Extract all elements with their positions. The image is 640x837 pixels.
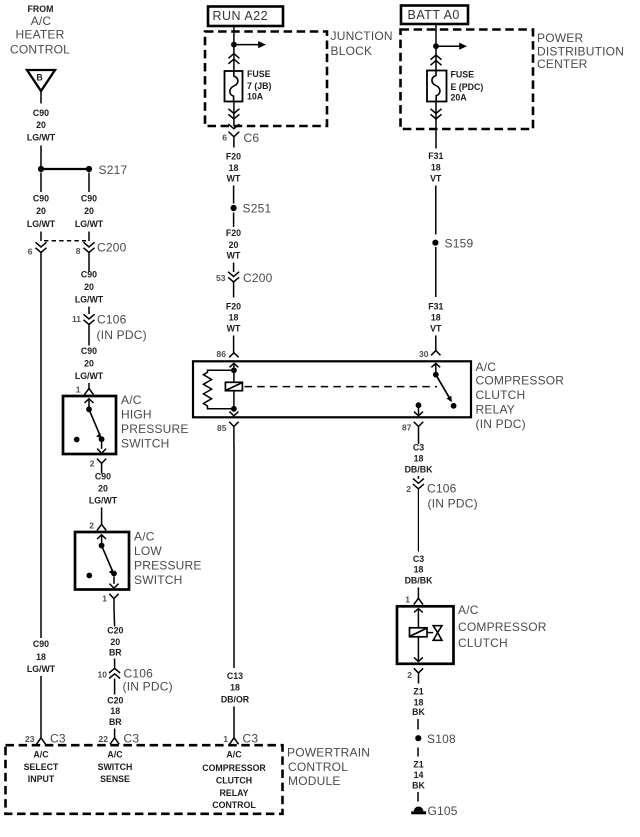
svg-text:SWITCH: SWITCH <box>134 573 183 587</box>
svg-text:10: 10 <box>98 670 108 680</box>
svg-text:F20: F20 <box>226 302 241 312</box>
svg-text:CONTROL: CONTROL <box>10 43 70 57</box>
svg-text:FUSE: FUSE <box>451 70 475 80</box>
svg-text:A/C: A/C <box>121 393 142 407</box>
svg-text:A/C: A/C <box>107 750 123 760</box>
svg-text:S108: S108 <box>427 732 456 746</box>
svg-text:87: 87 <box>402 423 412 433</box>
svg-text:6: 6 <box>28 247 33 257</box>
svg-text:PRESSURE: PRESSURE <box>121 422 189 436</box>
svg-text:POWER: POWER <box>537 31 583 45</box>
svg-text:1: 1 <box>76 385 81 395</box>
svg-text:JUNCTION: JUNCTION <box>331 29 393 43</box>
svg-text:BATT A0: BATT A0 <box>408 8 460 22</box>
svg-text:18: 18 <box>431 163 441 173</box>
svg-text:A/C: A/C <box>226 750 242 760</box>
svg-text:FUSE: FUSE <box>247 69 271 79</box>
svg-text:G105: G105 <box>428 804 458 818</box>
svg-text:C90: C90 <box>95 472 111 482</box>
svg-text:COMPRESSOR: COMPRESSOR <box>476 374 565 388</box>
svg-text:WT: WT <box>227 251 241 261</box>
svg-text:8: 8 <box>76 246 81 256</box>
svg-text:6: 6 <box>222 133 227 143</box>
svg-text:RELAY: RELAY <box>219 788 248 798</box>
svg-text:DB/BK: DB/BK <box>405 576 434 586</box>
svg-text:F31: F31 <box>428 302 443 312</box>
svg-text:18: 18 <box>230 683 240 693</box>
svg-text:(IN PDC): (IN PDC) <box>123 680 173 694</box>
svg-text:2: 2 <box>406 484 411 494</box>
svg-text:18: 18 <box>110 706 120 716</box>
svg-text:PRESSURE: PRESSURE <box>134 559 202 573</box>
svg-text:CONTROL: CONTROL <box>212 800 256 810</box>
svg-text:18: 18 <box>414 454 424 464</box>
svg-text:S159: S159 <box>445 236 474 250</box>
svg-text:COMPRESSOR: COMPRESSOR <box>458 620 547 634</box>
svg-text:20: 20 <box>36 120 46 130</box>
svg-text:(IN PDC): (IN PDC) <box>97 328 147 342</box>
svg-text:20: 20 <box>84 282 94 292</box>
svg-text:C90: C90 <box>81 270 97 280</box>
svg-text:A/C: A/C <box>458 603 479 617</box>
svg-text:LG/WT: LG/WT <box>75 295 104 305</box>
svg-text:INPUT: INPUT <box>28 774 55 784</box>
svg-text:E (PDC): E (PDC) <box>451 82 484 92</box>
svg-text:C13: C13 <box>227 671 243 681</box>
svg-text:10A: 10A <box>247 92 264 102</box>
svg-text:C106: C106 <box>427 482 457 496</box>
svg-text:BR: BR <box>109 648 122 658</box>
svg-text:C3: C3 <box>413 443 424 453</box>
svg-text:1: 1 <box>405 595 410 605</box>
svg-text:LG/WT: LG/WT <box>27 664 56 674</box>
svg-text:18: 18 <box>229 313 239 323</box>
svg-text:C3: C3 <box>50 732 66 746</box>
svg-text:LG/WT: LG/WT <box>75 371 104 381</box>
svg-text:CLUTCH: CLUTCH <box>458 636 508 650</box>
svg-text:C106: C106 <box>124 667 154 681</box>
svg-text:BK: BK <box>412 781 425 791</box>
svg-text:Z1: Z1 <box>413 760 423 770</box>
svg-text:LG/WT: LG/WT <box>27 219 56 229</box>
svg-text:7 (JB): 7 (JB) <box>247 81 272 91</box>
svg-text:SELECT: SELECT <box>24 762 59 772</box>
svg-text:C90: C90 <box>33 639 49 649</box>
svg-text:HIGH: HIGH <box>121 408 152 422</box>
svg-text:A/C: A/C <box>476 360 497 374</box>
svg-text:C90: C90 <box>33 194 49 204</box>
svg-text:85: 85 <box>217 423 227 433</box>
svg-text:B: B <box>36 73 42 83</box>
svg-text:S251: S251 <box>243 202 272 216</box>
svg-text:22: 22 <box>99 734 109 744</box>
svg-text:POWERTRAIN: POWERTRAIN <box>287 746 370 760</box>
svg-text:18: 18 <box>431 313 441 323</box>
svg-text:30: 30 <box>419 349 429 359</box>
svg-text:C106: C106 <box>97 313 127 327</box>
svg-text:11: 11 <box>72 314 81 324</box>
svg-text:C200: C200 <box>243 271 273 285</box>
svg-text:RELAY: RELAY <box>476 403 515 417</box>
svg-text:WT: WT <box>227 174 241 184</box>
svg-text:86: 86 <box>217 349 227 359</box>
svg-text:2: 2 <box>89 521 94 531</box>
svg-text:CONTROL: CONTROL <box>288 760 348 774</box>
svg-text:F20: F20 <box>226 152 241 162</box>
svg-text:20: 20 <box>36 206 46 216</box>
svg-text:DB/BK: DB/BK <box>405 465 434 475</box>
svg-text:14: 14 <box>414 770 424 780</box>
svg-text:C90: C90 <box>81 194 97 204</box>
svg-text:LG/WT: LG/WT <box>75 219 104 229</box>
svg-text:20: 20 <box>110 637 120 647</box>
svg-text:BR: BR <box>109 717 122 727</box>
svg-text:C200: C200 <box>97 241 127 255</box>
svg-text:CLUTCH: CLUTCH <box>216 776 252 786</box>
svg-text:Z1: Z1 <box>413 687 423 697</box>
svg-text:23: 23 <box>25 734 35 744</box>
svg-text:(IN PDC): (IN PDC) <box>428 497 478 511</box>
svg-text:FROM: FROM <box>28 4 54 14</box>
svg-text:C3: C3 <box>243 732 259 746</box>
svg-text:18: 18 <box>229 163 239 173</box>
svg-text:C6: C6 <box>244 131 260 145</box>
svg-text:LG/WT: LG/WT <box>89 496 118 506</box>
svg-text:18: 18 <box>36 652 46 662</box>
svg-text:S217: S217 <box>99 163 128 177</box>
svg-text:LOW: LOW <box>134 544 162 558</box>
svg-text:A/C: A/C <box>134 530 155 544</box>
svg-text:SWITCH: SWITCH <box>121 437 170 451</box>
svg-text:1: 1 <box>102 594 107 604</box>
svg-text:C90: C90 <box>33 108 49 118</box>
svg-text:(IN PDC): (IN PDC) <box>476 417 526 431</box>
svg-text:2: 2 <box>407 670 412 680</box>
svg-text:18: 18 <box>414 698 424 708</box>
svg-text:LG/WT: LG/WT <box>27 133 56 143</box>
svg-text:RUN A22: RUN A22 <box>213 9 269 23</box>
svg-text:2: 2 <box>90 459 95 469</box>
svg-text:1: 1 <box>223 734 228 744</box>
svg-text:DB/OR: DB/OR <box>221 695 250 705</box>
svg-text:C3: C3 <box>413 554 424 564</box>
svg-text:MODULE: MODULE <box>288 774 341 788</box>
svg-text:20A: 20A <box>451 93 468 103</box>
svg-text:C3: C3 <box>124 732 140 746</box>
svg-text:F31: F31 <box>428 151 443 161</box>
svg-text:SENSE: SENSE <box>100 774 130 784</box>
svg-text:HEATER: HEATER <box>16 28 65 42</box>
svg-text:BLOCK: BLOCK <box>331 44 373 58</box>
svg-text:CENTER: CENTER <box>537 57 588 71</box>
svg-text:VT: VT <box>430 324 442 334</box>
svg-text:20: 20 <box>229 240 239 250</box>
svg-text:A/C: A/C <box>33 750 49 760</box>
svg-text:20: 20 <box>98 484 108 494</box>
svg-text:SWITCH: SWITCH <box>98 762 133 772</box>
svg-text:F20: F20 <box>226 228 241 238</box>
svg-text:20: 20 <box>84 359 94 369</box>
svg-text:18: 18 <box>414 565 424 575</box>
svg-text:VT: VT <box>430 174 442 184</box>
svg-text:A/C: A/C <box>31 14 52 28</box>
svg-text:COMPRESSOR: COMPRESSOR <box>202 763 266 773</box>
svg-text:CLUTCH: CLUTCH <box>476 388 526 402</box>
svg-text:20: 20 <box>84 206 94 216</box>
svg-text:53: 53 <box>216 273 226 283</box>
svg-text:C20: C20 <box>107 696 123 706</box>
svg-text:C20: C20 <box>107 626 123 636</box>
svg-text:C90: C90 <box>81 346 97 356</box>
svg-text:BK: BK <box>412 707 425 717</box>
svg-text:WT: WT <box>227 324 241 334</box>
